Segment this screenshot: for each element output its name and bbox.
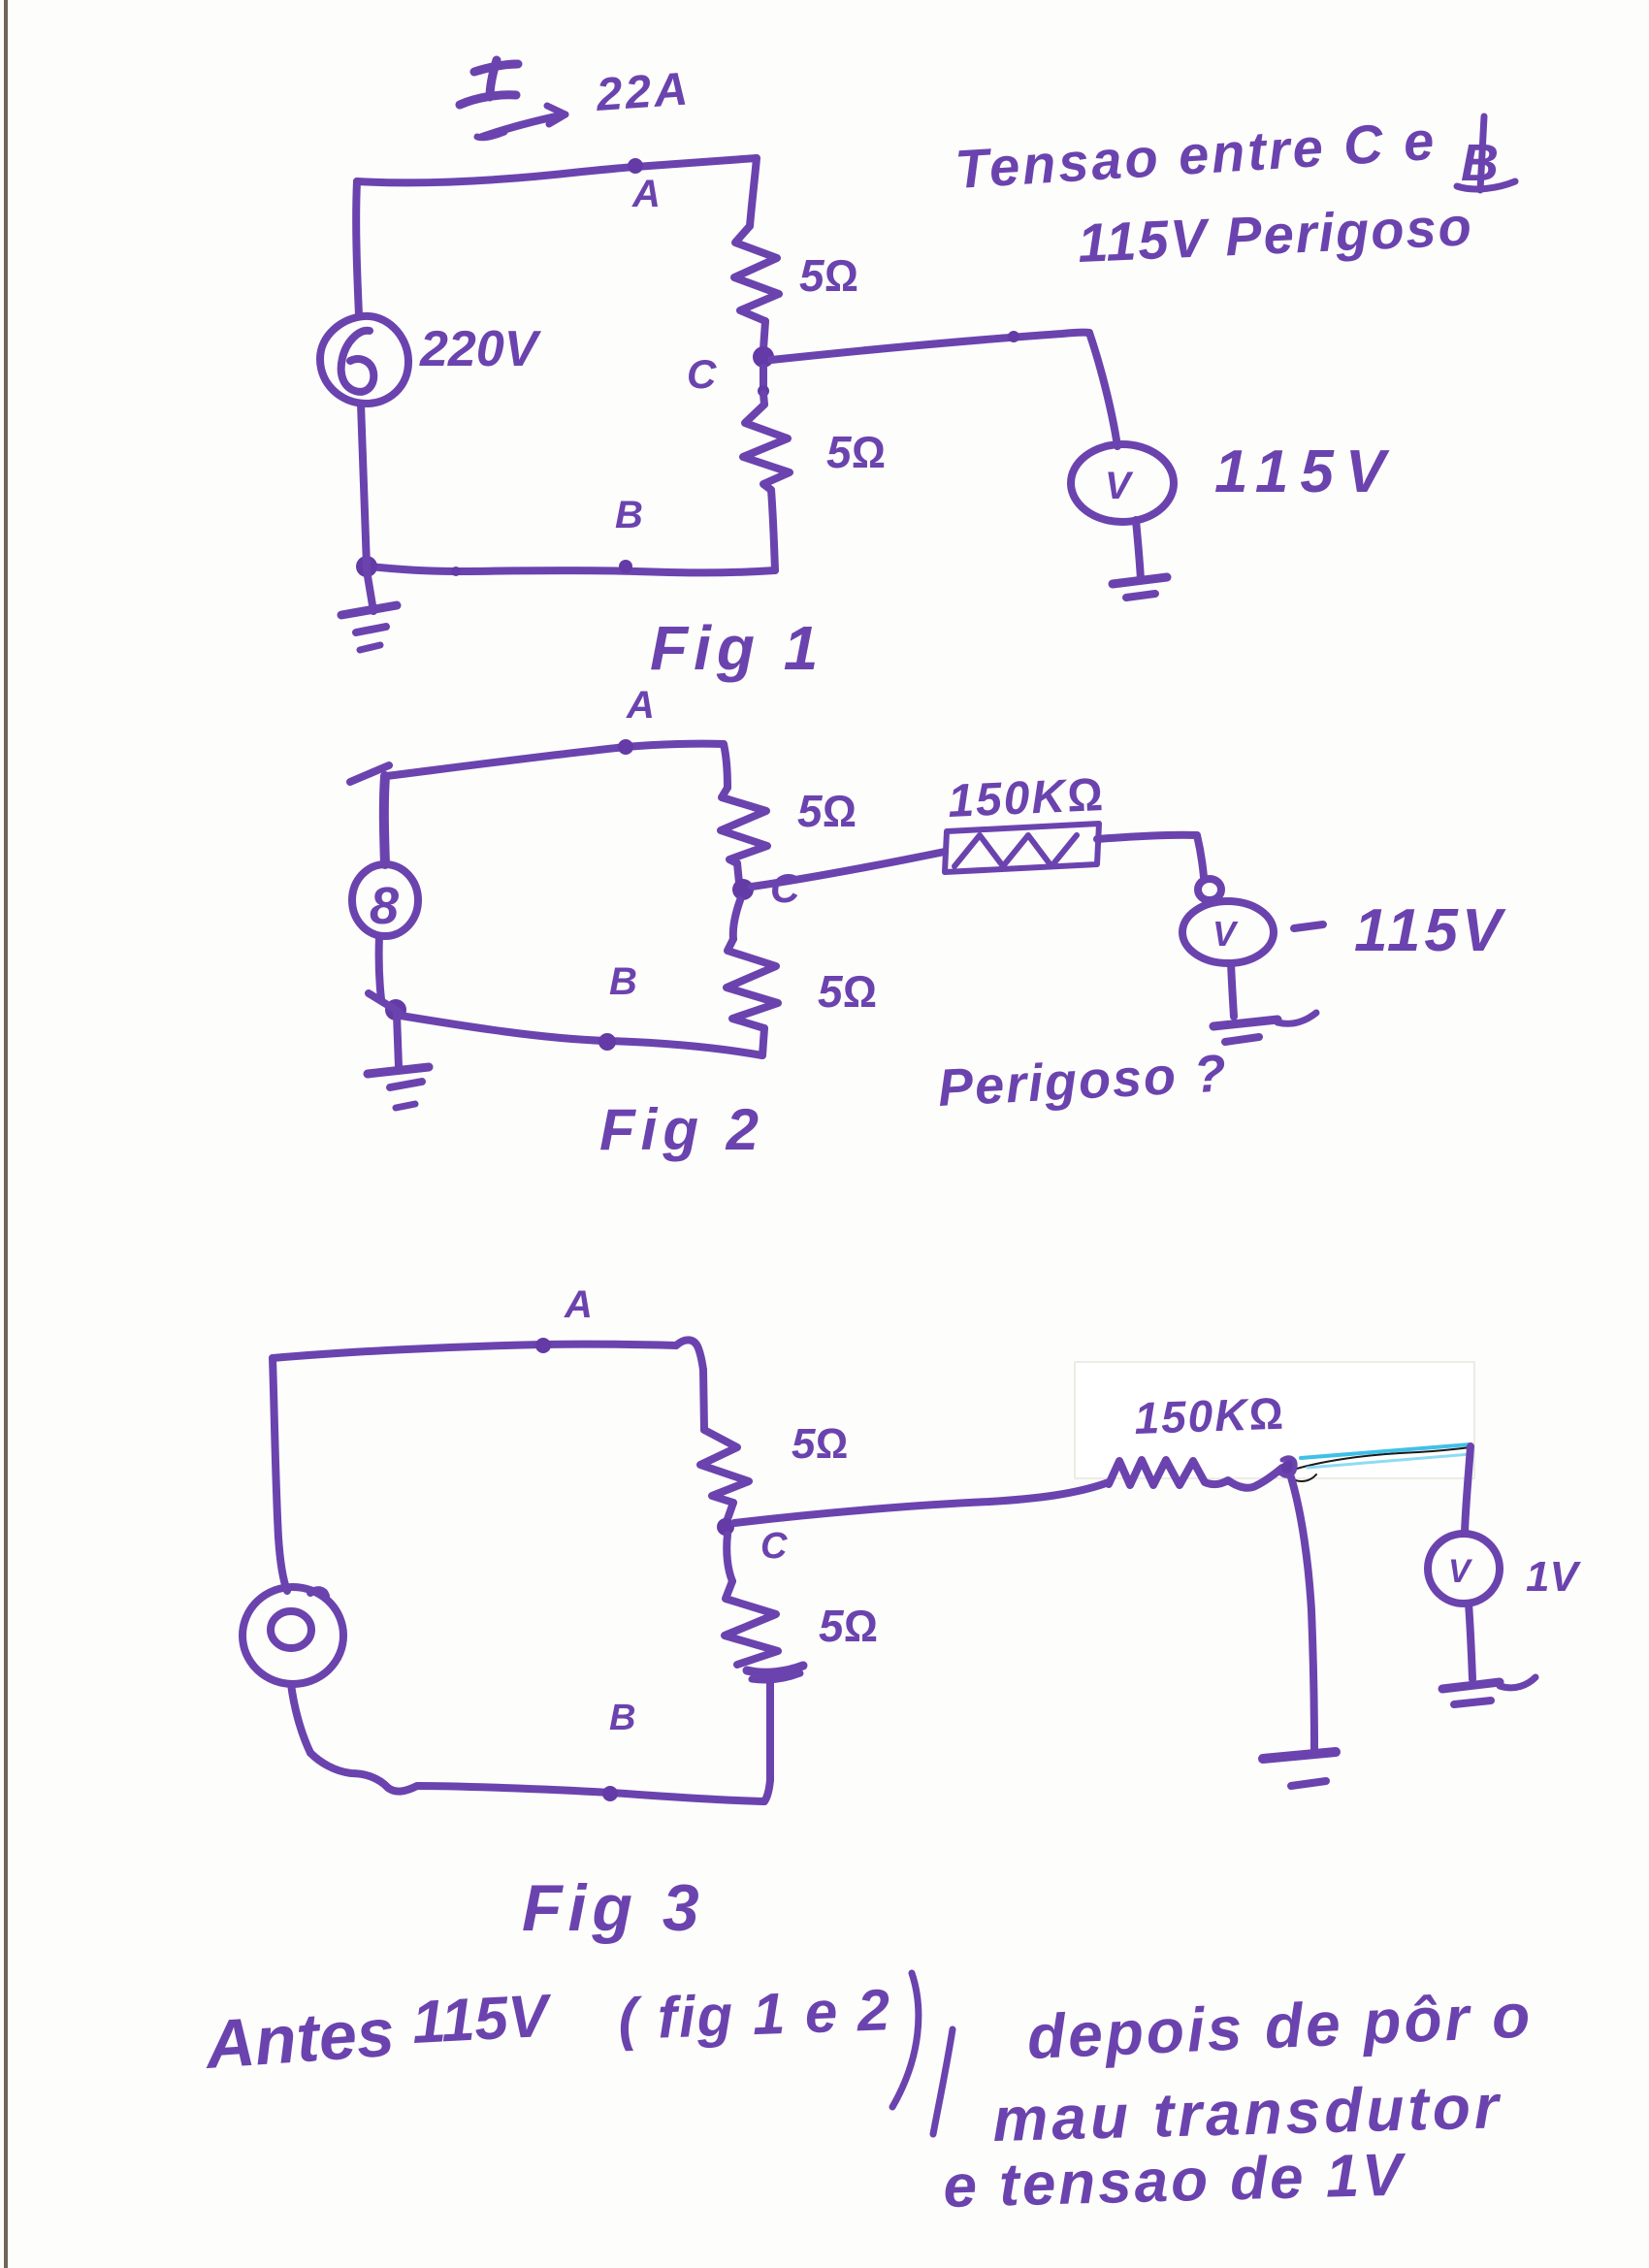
node B: [619, 560, 632, 573]
ground mid: [1263, 1752, 1336, 1759]
svg-text:220V: 220V: [419, 321, 542, 377]
wire C to box: [752, 852, 945, 887]
wire left: [356, 181, 359, 315]
wire bottom fig3: [310, 1753, 764, 1801]
wire bottom: [370, 567, 775, 572]
resistor 150k fig3: [1109, 1460, 1282, 1488]
resistor 150k box: [945, 824, 1099, 872]
wire tick top-left: [350, 765, 389, 782]
current arrow: [482, 115, 561, 137]
svg-text:22A: 22A: [594, 63, 693, 121]
knot node: [1281, 1460, 1297, 1475]
wire below source: [291, 1684, 310, 1753]
node B fig3: [602, 1786, 618, 1801]
svg-text:150KΩ: 150KΩ: [947, 769, 1106, 827]
svg-text:B: B: [615, 494, 643, 536]
wire right: [703, 1370, 704, 1430]
wire top: [387, 744, 724, 776]
wire: [762, 1028, 764, 1055]
svg-text:Fig 1: Fig 1: [650, 613, 824, 683]
svg-text:V: V: [1105, 465, 1134, 507]
wire: [763, 321, 765, 349]
node A fig3: [535, 1338, 551, 1353]
wire right to voltmeter: [1465, 1446, 1471, 1533]
ground: [1113, 577, 1167, 584]
svg-text:5Ω: 5Ω: [792, 1420, 848, 1468]
big paren: [892, 1973, 919, 2107]
svg-text:A: A: [564, 1283, 593, 1326]
resistor R2 5ohm fig3: [727, 1535, 732, 1581]
wire bottom fig2: [401, 1016, 762, 1055]
wire top: [357, 158, 757, 182]
voltmeter V fig1: [1071, 444, 1174, 522]
svg-text:Antes: Antes: [202, 1994, 397, 2084]
white correction patch: [1075, 1362, 1474, 1478]
corner: [676, 1340, 703, 1370]
svg-text:1V: 1V: [1526, 1553, 1581, 1601]
ground: [397, 1015, 399, 1067]
resistor R2 5ohm: [743, 405, 790, 490]
scanner edge line: [4, 0, 8, 2268]
svg-text:V: V: [1448, 1553, 1473, 1590]
svg-text:A: A: [626, 684, 655, 727]
dash: [1294, 924, 1323, 928]
svg-text:B: B: [609, 1698, 635, 1738]
ground: [1213, 1020, 1277, 1026]
svg-text:115V: 115V: [410, 1982, 554, 2056]
wire: [1469, 1604, 1472, 1679]
wire right bottom: [771, 490, 775, 570]
ground: [1442, 1682, 1500, 1689]
svg-text:5Ω: 5Ω: [826, 427, 886, 477]
svg-text:8: 8: [370, 877, 399, 935]
wire right top: [750, 158, 757, 226]
node A: [628, 158, 643, 174]
wire C right: [734, 1482, 1109, 1523]
svg-text:mau transdutor: mau transdutor: [991, 2071, 1503, 2155]
svg-text:B: B: [609, 960, 637, 1003]
wire: [1231, 963, 1234, 1017]
source G 220V: [320, 316, 408, 404]
svg-text:V: V: [1212, 914, 1239, 954]
svg-text:150KΩ: 150KΩ: [1134, 1388, 1286, 1443]
svg-text:( fig 1 e 2: ( fig 1 e 2: [617, 1977, 892, 2052]
node A: [618, 739, 633, 755]
current label I: [474, 64, 518, 72]
wire: [361, 404, 367, 567]
svg-text:5Ω: 5Ω: [797, 786, 857, 836]
svg-text:C: C: [760, 1526, 788, 1567]
junction: [385, 999, 406, 1021]
resistor R2 5ohm fig2: [733, 900, 740, 939]
svg-text:C: C: [687, 351, 717, 397]
svg-text:Fig 3: Fig 3: [522, 1871, 705, 1945]
svg-text:Fig 2: Fig 2: [599, 1097, 764, 1162]
comma stroke: [933, 2029, 953, 2134]
svg-text:5Ω: 5Ω: [818, 966, 877, 1017]
wire C to voltmeter: [771, 333, 1089, 360]
source 220V fig2: [352, 864, 418, 936]
ground: [367, 570, 373, 611]
junction: [356, 556, 377, 577]
node C fig2: [732, 879, 754, 900]
terminal loop: [1198, 879, 1221, 900]
wire: [1136, 520, 1141, 580]
wire down from knot: [1291, 1477, 1314, 1752]
wire: [379, 936, 381, 999]
node C fig3: [717, 1518, 734, 1536]
wire top fig3: [273, 1345, 676, 1358]
wire below C: [760, 368, 767, 388]
svg-text:5Ω: 5Ω: [819, 1601, 878, 1651]
wire: [727, 1503, 733, 1519]
wire box to voltmeter: [1097, 835, 1204, 877]
source circle fig3: [242, 1587, 343, 1684]
wire left fig3: [273, 1358, 287, 1591]
resistor R1 5ohm fig2: [721, 788, 767, 863]
resistor R1 5ohm: [734, 226, 779, 321]
resistor R1 5ohm fig3: [700, 1430, 749, 1503]
wire: [737, 863, 739, 883]
wire right: [724, 744, 727, 788]
wire right bottom: [766, 1679, 774, 1780]
svg-text:5Ω: 5Ω: [799, 250, 858, 301]
svg-text:115V: 115V: [1214, 438, 1397, 505]
node C: [753, 346, 774, 368]
wire left: [384, 776, 385, 864]
svg-text:115V: 115V: [1354, 897, 1506, 964]
voltmeter V fig2: [1182, 901, 1274, 963]
svg-text:C: C: [770, 865, 800, 911]
node B fig2: [598, 1033, 616, 1051]
voltmeter V fig3: [1428, 1534, 1500, 1604]
svg-text:A: A: [631, 173, 661, 215]
svg-text:e tensao de 1V: e tensao de 1V: [943, 2142, 1407, 2220]
